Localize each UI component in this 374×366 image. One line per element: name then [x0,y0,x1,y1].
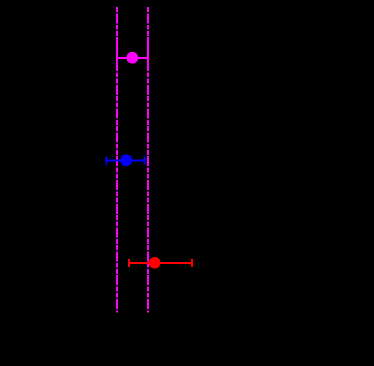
red errorbar: left cap [128,259,130,267]
magenta errorbar: right cap [147,45,149,63]
blue errorbar: horizontal bar [107,159,145,161]
red errorbar: horizontal bar [129,262,192,264]
blue errorbar: left cap [106,156,108,164]
right vertical dash-dot line (magenta) [147,7,149,312]
magenta data point marker [126,52,138,64]
red data point marker [149,257,161,269]
blue data point marker [120,154,132,166]
magenta errorbar: horizontal bar [117,57,148,59]
red errorbar: right cap [191,259,193,267]
left vertical dash-dot line (magenta) [116,7,118,312]
magenta errorbar: left cap [116,45,118,65]
blue errorbar: right cap [144,156,146,164]
